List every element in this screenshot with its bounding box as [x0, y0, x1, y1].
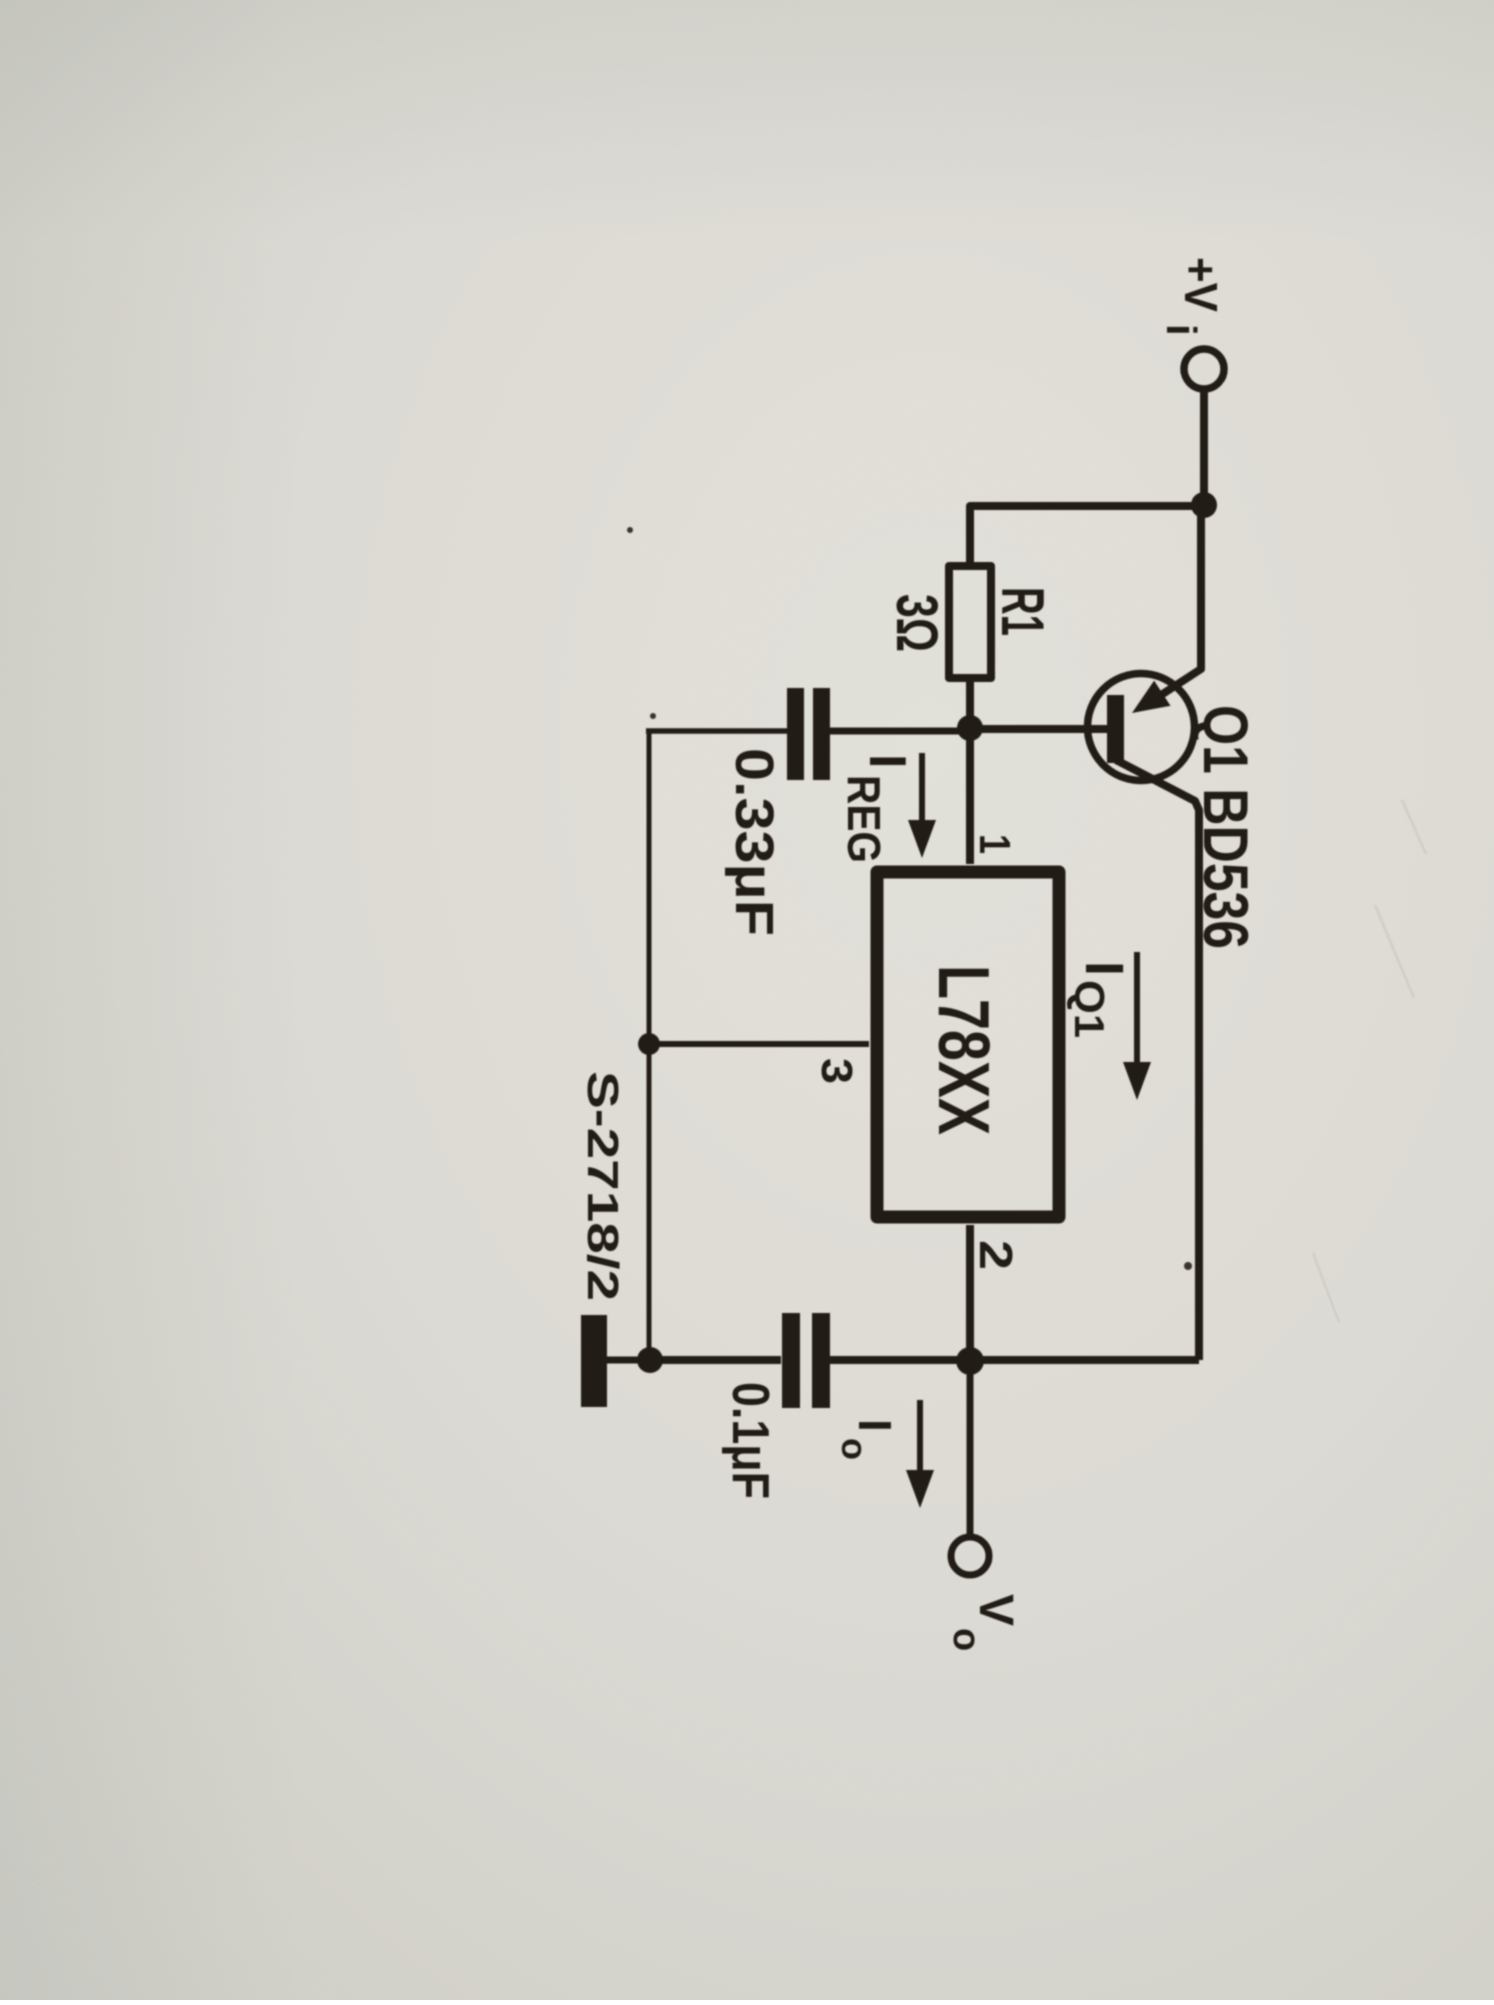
svg-text:o: o — [834, 1438, 875, 1460]
svg-text:+V: +V — [1175, 257, 1227, 312]
svg-text:Q1: Q1 — [1066, 980, 1113, 1038]
svg-text:R1: R1 — [989, 587, 1056, 636]
svg-text:S-2718/2: S-2718/2 — [578, 1071, 627, 1301]
svg-text:3Ω: 3Ω — [884, 594, 949, 652]
svg-text:i: i — [1158, 324, 1205, 336]
svg-text:2: 2 — [970, 1240, 1022, 1270]
svg-text:I: I — [858, 754, 916, 768]
svg-text:0.33μF: 0.33μF — [724, 748, 784, 936]
svg-text:0.1μF: 0.1μF — [721, 1382, 779, 1499]
svg-text:1: 1 — [970, 834, 1019, 854]
svg-text:I: I — [849, 1419, 901, 1432]
svg-text:o: o — [945, 1628, 987, 1651]
svg-text:L78XX: L78XX — [923, 965, 1003, 1135]
svg-text:V: V — [969, 1594, 1022, 1626]
svg-text:Q1 BD536: Q1 BD536 — [1190, 705, 1260, 949]
svg-text:3: 3 — [812, 1058, 861, 1084]
svg-text:REG: REG — [838, 775, 890, 863]
svg-text:I: I — [1074, 961, 1134, 976]
